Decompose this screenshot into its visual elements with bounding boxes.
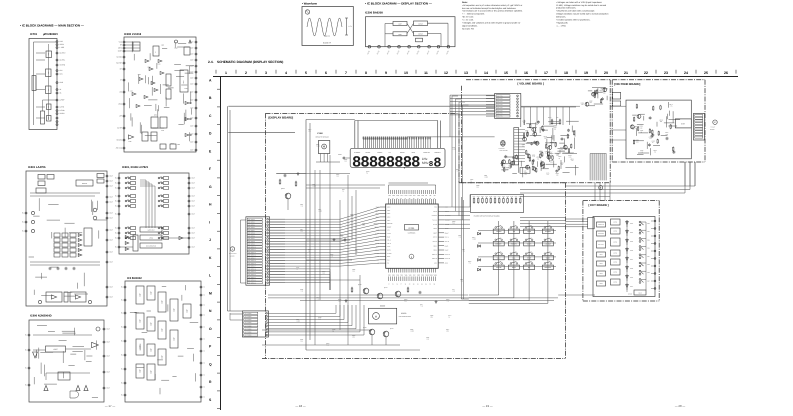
svg-text:G: G	[209, 185, 212, 189]
svg-text:KEY0: KEY0	[387, 207, 391, 209]
svg-text:KEY DATA 8: KEY DATA 8	[248, 241, 255, 243]
svg-text:SG9: SG9	[421, 274, 424, 276]
svg-text:— 18 —: — 18 —	[295, 404, 305, 408]
svg-text:100: 100	[337, 176, 339, 178]
svg-text:L340: L340	[452, 147, 455, 149]
svg-text:Q370: Q370	[340, 234, 344, 236]
svg-text:DATA: DATA	[387, 256, 390, 258]
svg-text:4.7k: 4.7k	[331, 256, 334, 258]
svg-text:FIP2: FIP2	[392, 195, 395, 197]
svg-text:12: 12	[444, 71, 448, 75]
svg-text:S603: S603	[599, 273, 602, 275]
svg-text:VOL CTRL: VOL CTRL	[497, 113, 503, 115]
svg-text:IC601, IC606 LC7821: IC601, IC606 LC7821	[122, 166, 149, 169]
svg-text:SG3: SG3	[396, 274, 399, 276]
svg-text:R332: R332	[477, 196, 480, 198]
svg-text:KEY DATA 19: KEY DATA 19	[248, 271, 256, 273]
svg-text:10k: 10k	[509, 168, 511, 170]
svg-text:1: 1	[225, 71, 227, 75]
svg-text:C371: C371	[296, 267, 299, 269]
svg-text:TO/FROM: TO/FROM	[499, 148, 505, 150]
svg-text:kHz: kHz	[422, 157, 428, 161]
svg-text:VOL CTRL: VOL CTRL	[497, 110, 503, 112]
svg-text:BEEP: BEEP	[445, 232, 449, 234]
svg-text:47k: 47k	[469, 263, 471, 265]
svg-text:C380: C380	[599, 283, 602, 285]
svg-text:47k: 47k	[561, 149, 563, 151]
svg-text:REMOTE: REMOTE	[598, 224, 604, 226]
svg-text:4.7k: 4.7k	[649, 138, 652, 140]
svg-text:KEY DATA 3: KEY DATA 3	[248, 227, 255, 229]
svg-text:L380: L380	[460, 279, 463, 281]
svg-text:R341: R341	[515, 196, 518, 198]
svg-text:D601: D601	[630, 232, 633, 234]
svg-text:Q: Q	[209, 362, 212, 366]
svg-text:13: 13	[464, 71, 468, 75]
svg-text:KEY DATA 4: KEY DATA 4	[248, 230, 255, 232]
svg-text:FIP7: FIP7	[413, 195, 416, 197]
svg-text:MUTE: MUTE	[613, 242, 617, 244]
svg-text:SCHEMATIC DIAGRAM (DISPLAY SEC: SCHEMATIC DIAGRAM (DISPLAY SECTION)	[217, 60, 283, 64]
svg-text:G3: G3	[434, 195, 436, 197]
svg-text:J30: J30	[524, 171, 526, 173]
svg-text:KEY DATA 5: KEY DATA 5	[248, 233, 255, 235]
svg-text:11: 11	[424, 71, 428, 75]
svg-text:R333: R333	[481, 196, 484, 198]
svg-text:220: 220	[405, 301, 407, 303]
svg-text:AC POWER: AC POWER	[245, 335, 252, 337]
svg-text:VOL CTRL: VOL CTRL	[497, 104, 503, 106]
svg-text:VOL CTRL: VOL CTRL	[497, 95, 503, 97]
svg-text:SG12: SG12	[434, 274, 438, 276]
svg-text:FIP6: FIP6	[409, 195, 412, 197]
svg-text:TU-CLK: TU-CLK	[432, 220, 437, 222]
svg-text:KEY DATA 12: KEY DATA 12	[248, 252, 256, 254]
svg-text:SG8: SG8	[417, 274, 420, 276]
svg-text:9: 9	[385, 71, 387, 75]
svg-text:R340: R340	[510, 196, 513, 198]
svg-text:• IC BLOCK DIAGRAM — DISPLAY S: • IC BLOCK DIAGRAM — DISPLAY SECTION —	[365, 2, 432, 6]
svg-text:0.01: 0.01	[427, 339, 430, 341]
svg-text:1.5k: 1.5k	[556, 117, 559, 119]
svg-text:IC206 BA6208: IC206 BA6208	[365, 12, 383, 15]
svg-text:C225: C225	[177, 144, 180, 146]
svg-text:10k: 10k	[477, 187, 479, 189]
svg-text:VOL CTRL: VOL CTRL	[497, 98, 503, 100]
svg-text:D366: D366	[336, 174, 339, 176]
svg-text:D386: D386	[410, 329, 413, 331]
svg-text:SG7: SG7	[413, 274, 416, 276]
svg-text:AMP: AMP	[48, 88, 50, 91]
svg-text:KEY DATA 1: KEY DATA 1	[248, 222, 255, 224]
svg-text:C279: C279	[171, 143, 174, 145]
svg-text:L368: L368	[312, 184, 315, 186]
svg-text:C374: C374	[448, 315, 451, 317]
svg-text:100: 100	[540, 153, 542, 155]
svg-text:17: 17	[544, 71, 548, 75]
svg-text:47k: 47k	[547, 174, 549, 176]
svg-text:SENS: SENS	[433, 228, 437, 230]
svg-text:J: J	[209, 238, 211, 242]
svg-text:X3300: X3300	[380, 305, 385, 308]
svg-text:220: 220	[309, 131, 311, 133]
svg-text:Q363: Q363	[326, 343, 330, 345]
svg-text:TEST: TEST	[387, 236, 390, 238]
svg-text:AC POWER: AC POWER	[245, 332, 252, 334]
svg-text:F: F	[209, 167, 211, 171]
svg-text:REF MONITOR: REF MONITOR	[146, 246, 156, 248]
svg-text:33k: 33k	[550, 161, 552, 163]
svg-text:Q362: Q362	[316, 144, 320, 146]
svg-text:0.022: 0.022	[485, 177, 489, 179]
svg-text:L357: L357	[300, 229, 303, 231]
svg-text:FIP8: FIP8	[417, 195, 420, 197]
svg-text:KEY DATA 16: KEY DATA 16	[248, 263, 256, 265]
svg-text:Q321: Q321	[384, 287, 388, 289]
svg-text:MUTE: MUTE	[433, 211, 437, 213]
svg-text:KEY1: KEY1	[387, 210, 391, 212]
svg-text:[DISPLAY BOARD]: [DISPLAY BOARD]	[269, 115, 294, 119]
svg-text:MUTE: MUTE	[613, 262, 617, 264]
svg-text:26: 26	[724, 71, 728, 75]
svg-text:R354: R354	[472, 237, 475, 239]
svg-text:DEK2: DEK2	[445, 250, 449, 252]
svg-text:47k: 47k	[654, 152, 656, 154]
svg-text:100: 100	[640, 127, 642, 129]
svg-text:C298: C298	[174, 48, 177, 50]
svg-text:2.2k: 2.2k	[666, 134, 669, 136]
svg-text:33k: 33k	[431, 317, 433, 319]
svg-text:D602: D602	[630, 241, 633, 243]
svg-text:4.7k: 4.7k	[532, 156, 535, 158]
svg-text:16: 16	[524, 71, 528, 75]
svg-text:100: 100	[556, 175, 558, 177]
svg-text:D600: D600	[630, 223, 633, 225]
svg-text:X-OUT: X-OUT	[387, 233, 391, 235]
svg-text:C294: C294	[138, 74, 141, 76]
svg-text:RESET: RESET	[387, 226, 391, 228]
svg-text:C265: C265	[157, 64, 160, 66]
svg-text:4.7k: 4.7k	[641, 151, 644, 153]
svg-text:S613: S613	[647, 248, 650, 250]
svg-text:R357: R357	[446, 329, 449, 331]
svg-text:Q383: Q383	[452, 221, 456, 223]
svg-text:S601: S601	[599, 254, 602, 256]
svg-text:— 19 —: — 19 —	[482, 404, 492, 408]
svg-text:C354: C354	[308, 129, 311, 131]
svg-text:X-IN: X-IN	[387, 230, 390, 232]
svg-text:VOL CTRL: VOL CTRL	[497, 116, 503, 118]
svg-text:• Voltages are taken with a VO: • Voltages are taken with a VOM (Input i…	[556, 1, 603, 4]
svg-text:FIP1: FIP1	[388, 195, 391, 197]
svg-text:R334: R334	[485, 196, 488, 198]
svg-text:C355: C355	[470, 179, 473, 181]
svg-text:AMS: AMS	[434, 263, 437, 265]
svg-text:MOT-F: MOT-F	[433, 237, 437, 239]
svg-text:6: 6	[325, 71, 327, 75]
svg-text:M: M	[375, 315, 377, 318]
svg-text:KEY DATA 23: KEY DATA 23	[248, 282, 256, 284]
svg-text:SG2: SG2	[392, 274, 395, 276]
svg-text:FROM MAIN: FROM MAIN	[229, 253, 236, 255]
svg-text:33k: 33k	[542, 131, 544, 133]
svg-text:S615: S615	[647, 264, 650, 266]
svg-text:DECK-A: DECK-A	[432, 254, 437, 256]
svg-text:15: 15	[504, 71, 508, 75]
svg-text:C386: C386	[344, 159, 347, 161]
svg-text:• Signal path.: • Signal path.	[556, 21, 569, 24]
svg-text:MUTE: MUTE	[613, 222, 617, 224]
svg-text:DEK1: DEK1	[434, 245, 438, 247]
svg-text:R384: R384	[308, 249, 311, 251]
svg-text:D606: D606	[630, 277, 633, 279]
svg-text:R372: R372	[338, 299, 341, 301]
svg-text:4.7k: 4.7k	[447, 301, 450, 303]
svg-text:IC201: IC201	[409, 227, 416, 230]
svg-text:L: L	[209, 274, 211, 278]
svg-text:4.7k: 4.7k	[301, 291, 304, 293]
svg-text:10k: 10k	[351, 216, 353, 218]
svg-text:C386: C386	[352, 269, 355, 271]
svg-text:AC POWER: AC POWER	[245, 325, 252, 327]
svg-text:S611: S611	[647, 231, 650, 233]
svg-text:KEY DATA 6: KEY DATA 6	[248, 235, 255, 237]
svg-text:R339: R339	[506, 196, 509, 198]
svg-text:C397: C397	[318, 209, 321, 211]
svg-text:4: 4	[285, 71, 287, 75]
svg-text:AMS: AMS	[445, 263, 448, 265]
svg-text:I: I	[209, 220, 210, 224]
svg-text:Q319: Q319	[318, 317, 322, 319]
svg-text:D605: D605	[630, 268, 633, 270]
svg-text:2.2k: 2.2k	[526, 132, 529, 134]
svg-text:REG: REG	[183, 80, 185, 83]
svg-text:— 17 —: — 17 —	[105, 404, 115, 408]
svg-text:19: 19	[584, 71, 588, 75]
svg-text:IF: IF	[155, 51, 157, 52]
svg-text:2: 2	[245, 71, 247, 75]
svg-text:AMP: AMP	[48, 71, 50, 74]
svg-text:MOT-R: MOT-R	[445, 241, 449, 243]
svg-text:100: 100	[345, 161, 347, 163]
svg-text:SG11: SG11	[430, 274, 434, 276]
svg-text:C388: C388	[476, 185, 479, 187]
svg-text:14: 14	[484, 71, 488, 75]
svg-text:AC POWER: AC POWER	[245, 319, 252, 321]
svg-text:Q331: Q331	[390, 328, 394, 330]
svg-text:4.7k: 4.7k	[421, 306, 424, 308]
svg-text:0.022: 0.022	[473, 239, 477, 241]
svg-text:KEY DATA 9: KEY DATA 9	[248, 244, 255, 246]
svg-text:2-4.: 2-4.	[208, 60, 214, 64]
svg-text:DECK-B: DECK-B	[432, 258, 437, 260]
svg-text:D363: D363	[322, 271, 325, 273]
svg-text:[ ECT BOARD ]: [ ECT BOARD ]	[589, 203, 609, 207]
svg-text:R336: R336	[494, 196, 497, 198]
svg-text:L350: L350	[296, 319, 299, 321]
svg-text:IC401 LA4706: IC401 LA4706	[28, 166, 46, 169]
svg-text:R338: R338	[502, 196, 505, 198]
svg-text:AC POWER: AC POWER	[245, 316, 252, 318]
svg-text:S616: S616	[647, 272, 650, 274]
svg-text:signal conditions.: signal conditions.	[462, 24, 478, 27]
svg-text:R344: R344	[548, 117, 552, 119]
svg-text:C351: C351	[458, 235, 461, 237]
svg-text:KEY DATA 10: KEY DATA 10	[248, 246, 256, 248]
svg-text:D321: D321	[300, 339, 303, 341]
svg-text:0.01: 0.01	[569, 157, 572, 159]
svg-text:21: 21	[624, 71, 628, 75]
svg-text:100: 100	[323, 273, 325, 275]
svg-text:KEY DATA 22: KEY DATA 22	[248, 280, 256, 282]
svg-text:FIP5: FIP5	[405, 195, 408, 197]
svg-text:R335: R335	[489, 196, 492, 198]
svg-text:18: 18	[564, 71, 568, 75]
svg-text:• All capacitors are in µF unl: • All capacitors are in µF unless otherw…	[462, 4, 523, 7]
svg-text:47k: 47k	[561, 164, 563, 166]
svg-text:• Voltages and variations are: • Voltages and variations are dc with re…	[462, 22, 521, 25]
svg-text:IC701: IC701	[30, 33, 38, 36]
svg-text:TO EXT: TO EXT	[711, 127, 716, 129]
svg-text:7: 7	[345, 71, 347, 75]
svg-text:◁… : (FM): ◁… : (FM)	[556, 24, 566, 27]
svg-text:KEY DATA 18: KEY DATA 18	[248, 269, 256, 271]
svg-text:KEY DATA 11: KEY DATA 11	[248, 249, 256, 251]
svg-text:SG6: SG6	[409, 274, 412, 276]
svg-text:8: 8	[433, 156, 441, 171]
svg-text:S617: S617	[647, 280, 650, 282]
svg-text:X3300: X3300	[401, 312, 406, 315]
svg-text:KEY DATA 20: KEY DATA 20	[248, 274, 256, 276]
svg-text:VOL-A: VOL-A	[387, 240, 391, 242]
svg-text:10k: 10k	[301, 341, 303, 343]
svg-text:S610: S610	[647, 223, 650, 225]
svg-text:• □ : B– Line.: • □ : B– Line.	[462, 19, 474, 22]
svg-text:10k: 10k	[301, 231, 303, 233]
svg-text:Voltage variations may be note: Voltage variations may be noted due to n…	[556, 13, 608, 16]
svg-text:BEEP: BEEP	[433, 232, 437, 234]
svg-text:CE: CE	[387, 263, 389, 265]
svg-text:10k: 10k	[632, 129, 634, 131]
svg-text:BOARD: BOARD	[230, 256, 235, 258]
svg-text:S620: S620	[638, 293, 641, 295]
svg-text:less are not indicated except: less are not indicated except for electr…	[462, 7, 517, 10]
svg-text:KEY DATA 15: KEY DATA 15	[248, 260, 256, 262]
svg-text:KEY4: KEY4	[387, 220, 391, 222]
svg-text:DEK2: DEK2	[434, 250, 438, 252]
svg-text:[VR+TONE BOARD]: [VR+TONE BOARD]	[614, 82, 640, 86]
svg-text:REMOTE: REMOTE	[387, 223, 393, 225]
svg-text:S612: S612	[647, 239, 650, 241]
svg-text:0.022: 0.022	[297, 321, 301, 323]
svg-text:5: 5	[305, 71, 307, 75]
svg-text:Note:: Note:	[462, 1, 468, 4]
svg-text:• IC BLOCK DIAGRAMS — MAIN SEC: • IC BLOCK DIAGRAMS — MAIN SECTION —	[20, 24, 84, 28]
svg-text:2.2k: 2.2k	[603, 92, 606, 94]
svg-text:MAIN BOARD: MAIN BOARD	[500, 150, 508, 152]
svg-text:PON: PON	[434, 207, 437, 209]
svg-text:VOL CTRL: VOL CTRL	[497, 101, 503, 103]
svg-text:4.7k: 4.7k	[317, 299, 320, 301]
svg-text:47k: 47k	[503, 168, 505, 170]
svg-text:No mark: FM: No mark: FM	[462, 27, 474, 30]
svg-text:µPC2800HV: µPC2800HV	[43, 33, 58, 36]
svg-text:KEY DATA 13: KEY DATA 13	[248, 255, 256, 257]
svg-text:C289: C289	[128, 141, 131, 143]
svg-text:100: 100	[590, 102, 592, 104]
svg-text:DECK-B: DECK-B	[445, 258, 450, 260]
svg-text:G2: G2	[430, 195, 432, 197]
svg-text:C389: C389	[350, 214, 353, 216]
svg-text:D331: D331	[300, 289, 303, 291]
svg-text:• ☆ : internal component.: • ☆ : internal component.	[462, 13, 485, 16]
svg-text:FIP3: FIP3	[396, 195, 399, 197]
svg-text:O: O	[209, 327, 212, 331]
svg-text:SG5: SG5	[405, 274, 408, 276]
svg-text:KEY DATA 21: KEY DATA 21	[248, 277, 256, 279]
svg-text:D607: D607	[630, 286, 633, 288]
svg-text:OPT OUT: OPT OUT	[598, 244, 604, 246]
svg-text:22: 22	[644, 71, 648, 75]
svg-text:10 MΩ). Voltage variations may: 10 MΩ). Voltage variations may be noted …	[556, 4, 607, 7]
svg-text:C238: C238	[184, 88, 187, 90]
svg-text:33k: 33k	[660, 121, 662, 123]
svg-text:PHONES: PHONES	[598, 233, 604, 235]
svg-text:10k: 10k	[353, 271, 355, 273]
svg-text:C225: C225	[161, 44, 164, 46]
svg-text:Y3300: Y3300	[317, 132, 324, 135]
svg-text:IC201-②: IC201-②	[323, 42, 331, 45]
svg-text:Q330: Q330	[363, 327, 367, 329]
svg-text:0.022: 0.022	[313, 186, 317, 188]
svg-text:VOL CTRL: VOL CTRL	[497, 107, 503, 109]
svg-text:C218: C218	[147, 67, 150, 69]
svg-text:8: 8	[365, 71, 367, 75]
svg-text:R320: R320	[330, 254, 333, 256]
svg-text:33k: 33k	[525, 173, 527, 175]
svg-text:S614: S614	[647, 256, 650, 258]
svg-text:MUTE: MUTE	[613, 282, 617, 284]
svg-text:D338: D338	[332, 329, 335, 331]
svg-text:MUTE: MUTE	[387, 250, 391, 252]
svg-text:4.7k: 4.7k	[461, 281, 464, 283]
svg-text:[ VOLUME BOARD ]: [ VOLUME BOARD ]	[518, 82, 544, 86]
svg-text:Q363: Q363	[404, 299, 408, 301]
svg-text:— 20 —: — 20 —	[675, 404, 685, 408]
svg-text:0.022: 0.022	[317, 146, 321, 148]
svg-text:AC POWER: AC POWER	[245, 322, 252, 324]
svg-text:MPX: MPX	[154, 115, 157, 117]
svg-text:33k: 33k	[339, 301, 341, 303]
svg-text:MOT-F: MOT-F	[445, 237, 449, 239]
svg-text:KEY3: KEY3	[387, 217, 391, 219]
svg-text:R33: R33	[355, 249, 358, 251]
svg-text:KEY DATA 17: KEY DATA 17	[248, 266, 256, 268]
svg-text:0.01: 0.01	[327, 345, 330, 347]
svg-text:C294: C294	[130, 91, 133, 93]
svg-text:24: 24	[684, 71, 688, 75]
svg-text:R334: R334	[468, 261, 471, 263]
svg-text:4.7k: 4.7k	[301, 206, 304, 208]
svg-text:IC200 LV1018: IC200 LV1018	[124, 33, 142, 36]
svg-text:4.7k: 4.7k	[459, 237, 462, 239]
svg-text:FIP4: FIP4	[400, 195, 403, 197]
svg-text:220: 220	[363, 225, 365, 227]
svg-text:C321: C321	[426, 337, 429, 339]
svg-text:0.01: 0.01	[453, 291, 456, 293]
svg-text:IC3 BU1902: IC3 BU1902	[127, 277, 142, 280]
svg-text:R32: R32	[342, 189, 345, 191]
